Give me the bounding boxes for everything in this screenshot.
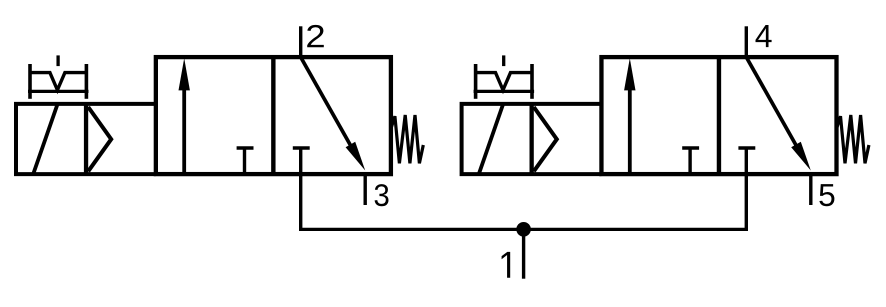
port 3 label bbox=[375, 184, 389, 206]
valve V1 (left 3/2 solenoid valve) bbox=[16, 25, 423, 206]
valve body outline V2 bbox=[601, 57, 836, 174]
solenoid box V1 bbox=[16, 104, 156, 174]
port 3 stub wire V1 bbox=[364, 172, 367, 205]
junction node (port 1) bbox=[516, 222, 531, 237]
wire: V2 drain down-line to bus bbox=[745, 174, 748, 231]
flow-path up arrow shaft V2 bbox=[628, 86, 632, 174]
port 5 label bbox=[819, 184, 834, 206]
wire: V1 drain down-line to bus bbox=[299, 174, 302, 231]
valve position divider V1 bbox=[271, 57, 275, 174]
manual override top bar with V-notch V2 bbox=[476, 73, 532, 90]
manual override left post V1 bbox=[28, 64, 32, 99]
exhaust diagonal arrow shaft V2 bbox=[746, 57, 797, 148]
exhaust diagonal arrow shaft V1 bbox=[301, 57, 352, 148]
port 5 stub wire V2 bbox=[809, 172, 812, 205]
wire: port 1 stub below junction bbox=[522, 229, 525, 278]
flow-path up arrowhead V2 bbox=[624, 58, 635, 90]
pilot triangle V2 bbox=[534, 107, 557, 171]
valve position divider V2 bbox=[717, 57, 721, 174]
solenoid box divider V1 bbox=[84, 104, 88, 174]
port 1 label bbox=[502, 252, 511, 278]
return spring V2 bbox=[837, 115, 869, 163]
manual override top bar with V-notch V1 bbox=[30, 73, 86, 90]
return spring V1 bbox=[391, 115, 423, 163]
flow-path up arrowhead V1 bbox=[179, 58, 190, 90]
solenoid box V2 bbox=[462, 104, 602, 174]
manual override push-pin tick V1 bbox=[56, 55, 59, 66]
pilot triangle V1 bbox=[88, 107, 111, 171]
manual override right post V1 bbox=[85, 64, 89, 99]
solenoid coil slash V1 bbox=[33, 104, 57, 174]
closed port T symbol (box1) V2 bbox=[682, 148, 699, 174]
closed port T symbol (box2) V2 bbox=[738, 148, 755, 174]
solenoid box divider V2 bbox=[530, 104, 534, 174]
valve body outline V1 bbox=[156, 57, 391, 174]
exhaust diagonal arrowhead V1 bbox=[346, 142, 366, 171]
manual override push-pin tick V2 bbox=[502, 55, 505, 66]
flow-path up arrow shaft V1 bbox=[182, 86, 186, 174]
closed port T symbol (box2) V1 bbox=[293, 148, 310, 174]
valve V2 (right 3/2 solenoid valve) bbox=[462, 25, 869, 206]
port 2 stub wire V1 bbox=[299, 26, 302, 59]
port 2 label bbox=[307, 25, 324, 47]
manual override left post V2 bbox=[474, 64, 478, 99]
port 4 label bbox=[756, 25, 772, 47]
port 4 stub wire V2 bbox=[745, 26, 748, 59]
solenoid coil slash V2 bbox=[479, 104, 503, 174]
manual override bottom bar V1 bbox=[28, 90, 89, 93]
wire: common bus port 1 bbox=[299, 228, 748, 231]
manual override bottom bar V2 bbox=[474, 90, 534, 93]
exhaust diagonal arrowhead V2 bbox=[791, 142, 811, 171]
manual override right post V2 bbox=[530, 64, 534, 99]
closed port T symbol (box1) V1 bbox=[237, 148, 254, 174]
